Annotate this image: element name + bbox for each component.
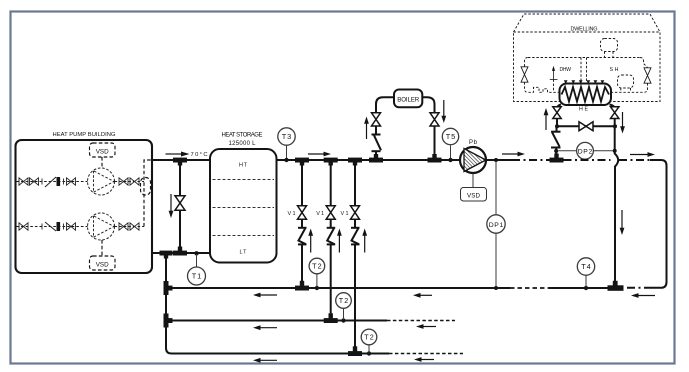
SH loop bbox=[612, 83, 648, 92]
svg-text:T2: T2 bbox=[312, 262, 322, 271]
arrow left line2 b bbox=[416, 324, 436, 329]
bypass valve bbox=[175, 162, 185, 251]
VSD box top bbox=[90, 143, 116, 168]
arrow left line3 a bbox=[253, 358, 277, 363]
tee dwelling supply bbox=[550, 154, 564, 163]
flex zigzag HE left bbox=[551, 126, 561, 156]
valve boiler right bbox=[430, 113, 439, 126]
svg-text:T2: T2 bbox=[364, 333, 374, 342]
wire dashed supply past dwelling bbox=[564, 159, 611, 161]
svg-text:HE: HE bbox=[579, 106, 588, 112]
svg-text:HEAT PUMP BUILDING: HEAT PUMP BUILDING bbox=[53, 132, 116, 138]
arrow left line3 b bbox=[414, 357, 434, 362]
tee branch3 bottom bbox=[348, 346, 362, 356]
DP2 impulse lines bbox=[559, 150, 577, 152]
sensor T5 bbox=[442, 128, 458, 144]
tee at bypass bottom bbox=[173, 247, 187, 256]
arrow left line1 a bbox=[253, 293, 277, 298]
node T1 tap bbox=[194, 251, 198, 255]
wire: building supply to tank bbox=[152, 159, 211, 161]
valve V1 branch3 bbox=[351, 206, 360, 219]
wire branch1 mid bbox=[301, 219, 303, 228]
wire branch1 lower bbox=[301, 244, 303, 286]
rail bbox=[528, 57, 640, 59]
tee branch1 bottom bbox=[295, 281, 309, 291]
svg-text:T5: T5 bbox=[446, 132, 456, 141]
node T4 tap bbox=[584, 286, 588, 290]
node T2c tap bbox=[367, 351, 371, 355]
svg-text:V1: V1 bbox=[316, 211, 324, 217]
tee boiler left riser bbox=[369, 154, 383, 163]
arrow down boiler right bbox=[441, 100, 446, 123]
dwelling roof bbox=[514, 14, 661, 32]
valve boiler left bbox=[372, 113, 381, 126]
tee header line1 bbox=[164, 281, 173, 295]
sensor T3 bbox=[278, 128, 295, 145]
SH radiator box bbox=[618, 75, 634, 88]
arrow left below loop return bbox=[631, 293, 655, 298]
svg-text:VSD: VSD bbox=[467, 193, 481, 200]
sensor T2a bbox=[309, 258, 325, 274]
suction line row 2 bbox=[17, 222, 88, 231]
svg-text:HT: HT bbox=[239, 163, 248, 169]
wire boiler outlet down bbox=[434, 126, 436, 158]
svg-text:SH: SH bbox=[610, 67, 619, 73]
svg-text:T4: T4 bbox=[581, 262, 591, 271]
arrow down beside bypass bbox=[169, 194, 174, 218]
svg-text:BOILER: BOILER bbox=[397, 97, 420, 104]
arrow right on supply bbox=[308, 152, 331, 157]
wire right loop bbox=[619, 159, 650, 161]
svg-text:70°C: 70°C bbox=[191, 152, 208, 158]
valve dwelling right bbox=[644, 68, 651, 83]
tee header line2 bbox=[164, 314, 173, 328]
heat exchanger HE bbox=[560, 84, 612, 113]
node crossover right bbox=[613, 124, 617, 128]
DHW arrow bbox=[550, 66, 571, 93]
wire branch3 bbox=[354, 162, 356, 206]
discharge row 1 bbox=[115, 178, 145, 185]
header vertical left bbox=[165, 253, 167, 348]
wire HE right down with jump bbox=[615, 119, 618, 286]
wire HE right pipe bbox=[610, 105, 615, 110]
tee branch1 top bbox=[295, 158, 309, 166]
sensor T2b bbox=[336, 293, 352, 309]
valve HE left bbox=[553, 107, 561, 119]
discharge row 2 bbox=[115, 223, 145, 230]
suction line row 1 bbox=[17, 177, 88, 187]
arrow left line2 a bbox=[253, 325, 277, 330]
svg-text:DHW: DHW bbox=[560, 67, 572, 73]
sensor T2c bbox=[361, 329, 377, 345]
arrow right on supply bbox=[166, 152, 190, 157]
return line 1 bbox=[166, 287, 510, 289]
pump P1 bbox=[88, 168, 115, 195]
svg-text:HEAT STORAGE: HEAT STORAGE bbox=[222, 133, 263, 139]
sensor DP2 bbox=[577, 142, 594, 159]
node T2a tap bbox=[315, 286, 319, 290]
arrow down HE right bbox=[620, 112, 625, 134]
pump P2 bbox=[88, 213, 115, 240]
flex zigzag branch2 bbox=[327, 228, 336, 245]
tee branch3 top bbox=[348, 158, 362, 166]
node T3 tap bbox=[284, 158, 288, 162]
return line building-tank bbox=[152, 252, 211, 254]
svg-text:V1: V1 bbox=[341, 211, 349, 217]
flex zigzag branch3 bbox=[351, 228, 360, 245]
node DP2 right bbox=[613, 149, 617, 153]
wire branch3 mid bbox=[354, 219, 356, 228]
wire dashed supply to dwelling bbox=[512, 159, 550, 161]
arrow right after pump bbox=[502, 152, 525, 157]
return line 2 bbox=[166, 320, 387, 322]
wire branch2 lower bbox=[330, 244, 332, 318]
drops to HE bbox=[580, 58, 582, 83]
wire branch1 bbox=[301, 162, 303, 206]
building outline bbox=[16, 140, 153, 273]
svg-text:VSD: VSD bbox=[96, 148, 109, 155]
arrow down right riser bbox=[620, 210, 625, 235]
svg-text:Pb: Pb bbox=[469, 140, 478, 146]
svg-text:T2: T2 bbox=[339, 296, 349, 305]
crossover wire bbox=[557, 125, 615, 127]
arrow up HE left bbox=[544, 108, 549, 130]
valve dwelling left bbox=[521, 67, 528, 82]
VSD box bottom bbox=[90, 240, 116, 270]
wire HE left pipe bbox=[557, 105, 561, 110]
arrow up boiler left bbox=[364, 117, 369, 140]
sensor DP1 bbox=[487, 215, 505, 233]
arrow up beside branch3 bbox=[362, 229, 367, 253]
crossover valve bbox=[579, 122, 593, 131]
svg-text:DP1: DP1 bbox=[489, 222, 504, 229]
tee at bypass top bbox=[173, 158, 187, 166]
wire pump discharge bbox=[487, 159, 513, 161]
valve HE right bbox=[611, 107, 619, 119]
svg-text:V1: V1 bbox=[288, 211, 296, 217]
arrow left line1 b bbox=[413, 293, 432, 298]
svg-text:DWELLING: DWELLING bbox=[571, 26, 598, 32]
DHW loop bbox=[525, 82, 560, 92]
wire HE left down bbox=[556, 119, 558, 126]
wire bbox=[276, 159, 460, 161]
arrow right to loop bbox=[630, 152, 655, 157]
VSD box pump bbox=[461, 174, 487, 202]
tee boiler right riser bbox=[428, 154, 442, 163]
svg-text:T3: T3 bbox=[282, 132, 292, 141]
wire branch2 bbox=[330, 162, 332, 206]
tee to lower header bbox=[160, 251, 173, 259]
boiler left riser with flex bbox=[372, 126, 382, 158]
valve V1 branch2 bbox=[326, 206, 335, 219]
sensor T1 bbox=[188, 267, 206, 285]
sensor T4 bbox=[577, 258, 594, 275]
tee branch2 top bbox=[324, 158, 338, 166]
svg-text:125000 L: 125000 L bbox=[229, 141, 257, 147]
wire branch3 lower bbox=[354, 244, 356, 351]
wire boiler inlet elbow bbox=[376, 97, 394, 113]
boiler right riser bbox=[422, 97, 434, 113]
HE arrowheads bbox=[564, 80, 605, 84]
node T2b tap bbox=[341, 318, 345, 322]
boiler box bbox=[394, 90, 422, 108]
node T5 tap bbox=[448, 158, 452, 162]
tee dwelling return bbox=[608, 281, 624, 291]
return line 3 bbox=[166, 348, 389, 354]
tee branch2 bottom bbox=[324, 313, 338, 323]
svg-text:DP2: DP2 bbox=[578, 148, 593, 155]
arrow up beside branch2 bbox=[337, 229, 342, 253]
wire branch2 mid bbox=[330, 219, 332, 228]
header pill bbox=[141, 178, 151, 196]
valve V1 branch1 bbox=[298, 206, 307, 219]
thermostat box bbox=[601, 39, 618, 52]
DP1 impulse line bbox=[495, 162, 497, 215]
flex zigzag branch1 bbox=[298, 228, 307, 245]
node DP1 top bbox=[494, 158, 498, 162]
svg-text:LT: LT bbox=[240, 250, 248, 256]
svg-text:VSD: VSD bbox=[96, 261, 109, 268]
internal riser dashed bbox=[144, 160, 151, 227]
arrow up beside branch1 bbox=[308, 229, 313, 253]
svg-text:T1: T1 bbox=[192, 272, 202, 281]
node crossover left bbox=[555, 124, 559, 128]
dwelling body bbox=[514, 32, 661, 102]
